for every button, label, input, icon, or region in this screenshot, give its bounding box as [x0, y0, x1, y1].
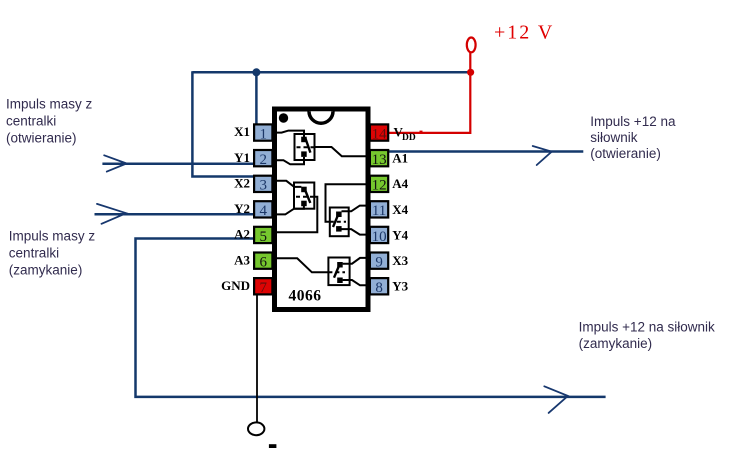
- svg-text:10: 10: [372, 229, 387, 245]
- svg-text:X3: X3: [392, 253, 408, 268]
- svg-text:4066: 4066: [289, 288, 322, 305]
- svg-text:DD: DD: [402, 133, 416, 143]
- svg-text:6: 6: [260, 254, 268, 270]
- svg-text:+12 V: +12 V: [494, 22, 554, 44]
- svg-text:5: 5: [260, 229, 268, 245]
- svg-text:centralki: centralki: [9, 245, 59, 260]
- svg-text:Impuls masy z: Impuls masy z: [9, 228, 96, 243]
- svg-text:X1: X1: [234, 124, 250, 139]
- svg-text:2: 2: [260, 152, 268, 168]
- svg-text:Impuls +12 na siłownik: Impuls +12 na siłownik: [579, 320, 715, 335]
- svg-text:4: 4: [260, 203, 268, 219]
- svg-text:(otwieranie): (otwieranie): [590, 146, 661, 161]
- svg-text:Y2: Y2: [234, 201, 250, 216]
- svg-text:8: 8: [375, 280, 383, 296]
- svg-text:12: 12: [372, 178, 387, 194]
- svg-text:14: 14: [372, 126, 388, 142]
- svg-text:Y3: Y3: [392, 279, 408, 294]
- svg-text:Impuls +12 na: Impuls +12 na: [590, 114, 676, 129]
- svg-text:7: 7: [260, 280, 268, 296]
- svg-text:A4: A4: [392, 176, 408, 191]
- svg-text:A1: A1: [392, 151, 408, 166]
- svg-text:Impuls masy z: Impuls masy z: [6, 96, 93, 111]
- svg-text:3: 3: [260, 178, 268, 194]
- svg-text:X4: X4: [392, 202, 408, 217]
- svg-text:(zamykanie): (zamykanie): [579, 336, 653, 351]
- svg-text:9: 9: [375, 254, 383, 270]
- svg-text:A3: A3: [234, 252, 250, 267]
- svg-text:1: 1: [260, 126, 268, 142]
- svg-text:GND: GND: [221, 278, 250, 293]
- svg-text:(zamykanie): (zamykanie): [9, 262, 83, 277]
- svg-text:13: 13: [372, 152, 387, 168]
- svg-text:centralki: centralki: [6, 113, 56, 128]
- svg-text:X2: X2: [234, 175, 250, 190]
- svg-text:siłownik: siłownik: [590, 130, 638, 145]
- svg-text:11: 11: [372, 203, 386, 219]
- svg-text:(otwieranie): (otwieranie): [6, 130, 77, 145]
- svg-text:Y1: Y1: [234, 150, 250, 165]
- svg-text:Y4: Y4: [392, 227, 408, 242]
- svg-text:A2: A2: [234, 227, 250, 242]
